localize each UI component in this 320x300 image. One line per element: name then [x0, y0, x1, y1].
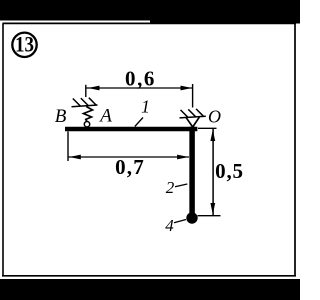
dimension 0,5 bottom arrowhead [210, 203, 215, 214]
svg-text:0,5: 0,5 [215, 159, 244, 183]
dimension 0,7 line [68, 156, 189, 158]
bottom black band [0, 279, 300, 300]
spring link at A [84, 107, 93, 122]
leader line for 1 [135, 118, 143, 127]
svg-text:O: O [208, 107, 221, 127]
svg-text:2: 2 [166, 178, 175, 197]
dimension 0,5 bottom extension line (from point 4) [198, 215, 221, 217]
frame top border [3, 22, 297, 24]
svg-text:0,7: 0,7 [115, 155, 145, 179]
bar 1 (horizontal rod B to corner) [65, 127, 197, 131]
hinge circle at A [84, 122, 89, 127]
dimension 0,7 right arrowhead [177, 155, 189, 160]
svg-text:13: 13 [15, 32, 34, 57]
pin triangle at O [186, 117, 199, 127]
dimension 0,6 line [86, 87, 193, 89]
dimension 0,6 extension tick left (above A) [85, 85, 87, 97]
dimension 0,6 right arrowhead [181, 86, 193, 91]
svg-text:0,6: 0,6 [125, 67, 156, 91]
bar 2 (vertical rod) [189, 127, 195, 214]
dimension 0,7 left arrowhead [69, 155, 81, 160]
leader line for 2 [175, 184, 187, 187]
support hatching at O [180, 109, 206, 118]
dimension 0,5 top extension line (from O) [198, 127, 217, 129]
dimension 0,7 extension tick left (below B) [67, 132, 69, 162]
dimension 0,6 left arrowhead [88, 86, 100, 91]
top black band [0, 0, 300, 21]
dimension 0,5 line [212, 129, 214, 215]
dimension 0,6 extension tick right (above O) [192, 84, 194, 108]
frame right border [294, 21, 296, 276]
svg-text:A: A [98, 106, 112, 127]
frame bottom border [2, 275, 296, 277]
frame left border [2, 23, 4, 276]
leader line for 4 [174, 220, 186, 223]
support hatching at A [72, 98, 98, 107]
svg-text:4: 4 [165, 216, 174, 235]
mass point 4 dot [186, 212, 197, 223]
problem number badge circle [12, 33, 36, 57]
svg-text:1: 1 [141, 97, 150, 117]
dimension 0,5 top arrowhead [210, 130, 215, 141]
svg-text:B: B [55, 106, 67, 127]
